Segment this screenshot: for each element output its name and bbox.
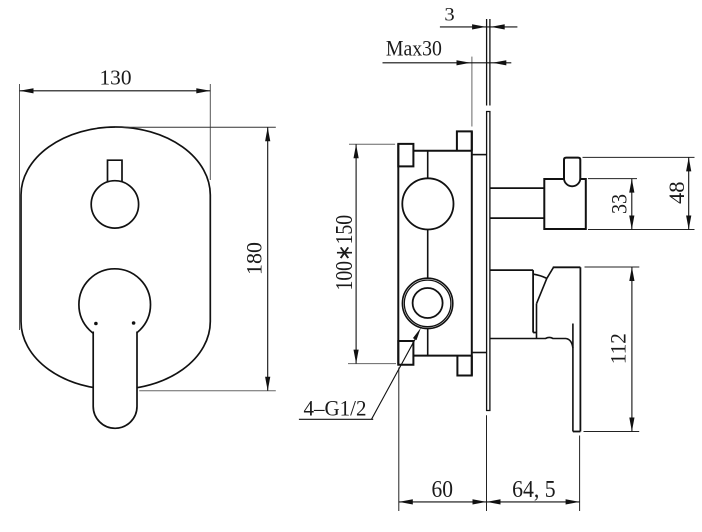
body-plate connector top — [472, 154, 487, 156]
dim 33: extension line top — [588, 178, 637, 180]
port top-right — [457, 131, 472, 150]
dim 112: extension line bottom — [584, 431, 640, 433]
handle neck diagonal down — [537, 278, 547, 303]
dim 64.5: arrow left — [487, 499, 501, 504]
dim 130: arrow left — [20, 88, 34, 93]
outlet pipe top line — [490, 187, 544, 189]
dim 33: arrow bottom — [629, 216, 634, 230]
dim 60/64.5: extension line left — [398, 368, 400, 512]
valve body left edge — [397, 144, 399, 365]
dim 60/64.5: dimension line — [399, 501, 580, 503]
handle neck to blade diagonal up — [547, 267, 554, 278]
dim 130: extension line left — [19, 84, 21, 330]
label 4-G1/2 underline — [299, 418, 373, 420]
wall plate upper extension segments — [486, 19, 488, 106]
svg-text:112: 112 — [606, 333, 631, 364]
centre line segment 2 — [427, 230, 429, 279]
dim 60/64.5: extension line middle — [486, 415, 488, 511]
handle neck top curve — [533, 274, 547, 278]
svg-text:3: 3 — [444, 5, 454, 26]
dim 60: arrow left — [399, 499, 413, 504]
body-plate connector bottom — [472, 352, 487, 354]
handle base rect — [490, 270, 536, 332]
valve body right edge — [471, 131, 473, 375]
svg-text:180: 180 — [242, 242, 267, 275]
dim 180: arrow top — [265, 127, 270, 141]
dim 48: arrow bottom — [686, 216, 691, 230]
dim 130: arrow right — [196, 88, 210, 93]
label 4-G1/2 leader arrowhead — [413, 328, 421, 340]
diverter knob stem rect — [108, 160, 123, 182]
dim 180: dimension line — [267, 127, 269, 391]
dim 180: arrow bottom — [265, 377, 270, 391]
lower port second ring — [404, 280, 451, 327]
dim 33: extension line bottom — [588, 229, 695, 231]
dim Max30: arrow pointing right (tip at ext line) — [457, 60, 471, 65]
dim Max30: dimension line — [383, 62, 512, 64]
outlet block — [544, 179, 586, 229]
dim 48: extension line top — [583, 156, 695, 158]
dim 112: arrow bottom — [629, 418, 634, 432]
lever handle base circle — [79, 269, 151, 341]
svg-text:64, 5: 64, 5 — [512, 477, 556, 503]
dim 3: dimension line — [440, 26, 518, 28]
dim 3: arrow left (pointing right at plate) — [472, 24, 486, 29]
blade inner edge — [572, 324, 574, 432]
dot right on lever — [132, 321, 136, 325]
neck bottom curve to blade — [566, 339, 573, 349]
blade bottom edge — [573, 431, 581, 433]
port top-left — [398, 144, 413, 167]
svg-text:130: 130 — [100, 65, 132, 89]
outlet stub on block — [564, 158, 580, 180]
dim 64.5: arrow right — [566, 499, 580, 504]
dim 100*150: dimension line — [355, 144, 357, 363]
dim 112: arrow top — [629, 267, 634, 281]
dim 112: dimension line — [631, 267, 633, 432]
dim 180: extension line bottom — [139, 390, 276, 392]
svg-text:Max30: Max30 — [386, 36, 442, 61]
dim 112: extension line top — [585, 266, 640, 268]
svg-text:48: 48 — [664, 181, 689, 204]
centre line segment 1 — [427, 151, 429, 178]
dim 130: extension line right — [209, 84, 211, 180]
dim 100*150: arrow top — [354, 144, 359, 158]
valve body top edge — [413, 150, 471, 152]
dim 100*150: extension line bottom — [348, 363, 396, 365]
dot left on lever — [94, 322, 98, 326]
dim 3: arrow right (pointing left at plate) — [491, 24, 505, 29]
svg-text:60: 60 — [432, 477, 454, 503]
dim 48: dimension line — [688, 157, 690, 229]
svg-text:4–G1/2: 4–G1/2 — [304, 396, 367, 421]
wall plate (side) — [487, 112, 490, 411]
valve body bottom edge — [413, 355, 471, 357]
upper cartridge circle — [402, 178, 453, 229]
lower port inner circle — [413, 288, 443, 318]
svg-text:33: 33 — [606, 194, 631, 214]
dim Max30: arrow pointing left (tip at plate) — [492, 60, 506, 65]
handle flange bottom line — [490, 337, 566, 338]
dim 60: arrow right — [473, 499, 487, 504]
lower port outer circle — [402, 278, 452, 328]
label 4-G1/2 leader line — [372, 337, 417, 420]
dim 100*150: extension line top — [349, 143, 395, 145]
diverter knob circle — [91, 181, 138, 228]
dim 130: dimension line — [20, 90, 211, 92]
port bottom-left — [398, 341, 413, 365]
stub bottom arc — [564, 179, 580, 186]
lever handle stem (stadium) — [93, 332, 137, 429]
handle neck left edge — [536, 304, 538, 339]
faceplate (rounded rectangle) — [21, 127, 210, 389]
blade right edge — [579, 267, 581, 431]
blade top edge — [553, 266, 581, 268]
dim Max30: extension line (thin) — [471, 57, 473, 127]
dim 33: dimension line — [631, 179, 633, 230]
dim 180: extension line top — [115, 126, 276, 128]
dim 60/64.5: extension line right — [579, 436, 581, 512]
centre line segment 3 — [427, 329, 429, 356]
port bottom-right — [457, 356, 471, 376]
dim 48: arrow top — [686, 157, 691, 171]
outlet pipe bottom line — [490, 217, 544, 219]
dim 100*150: arrow bottom — [354, 350, 359, 364]
dim 33: arrow top — [629, 179, 634, 193]
svg-text:100∗150: 100∗150 — [332, 215, 358, 291]
